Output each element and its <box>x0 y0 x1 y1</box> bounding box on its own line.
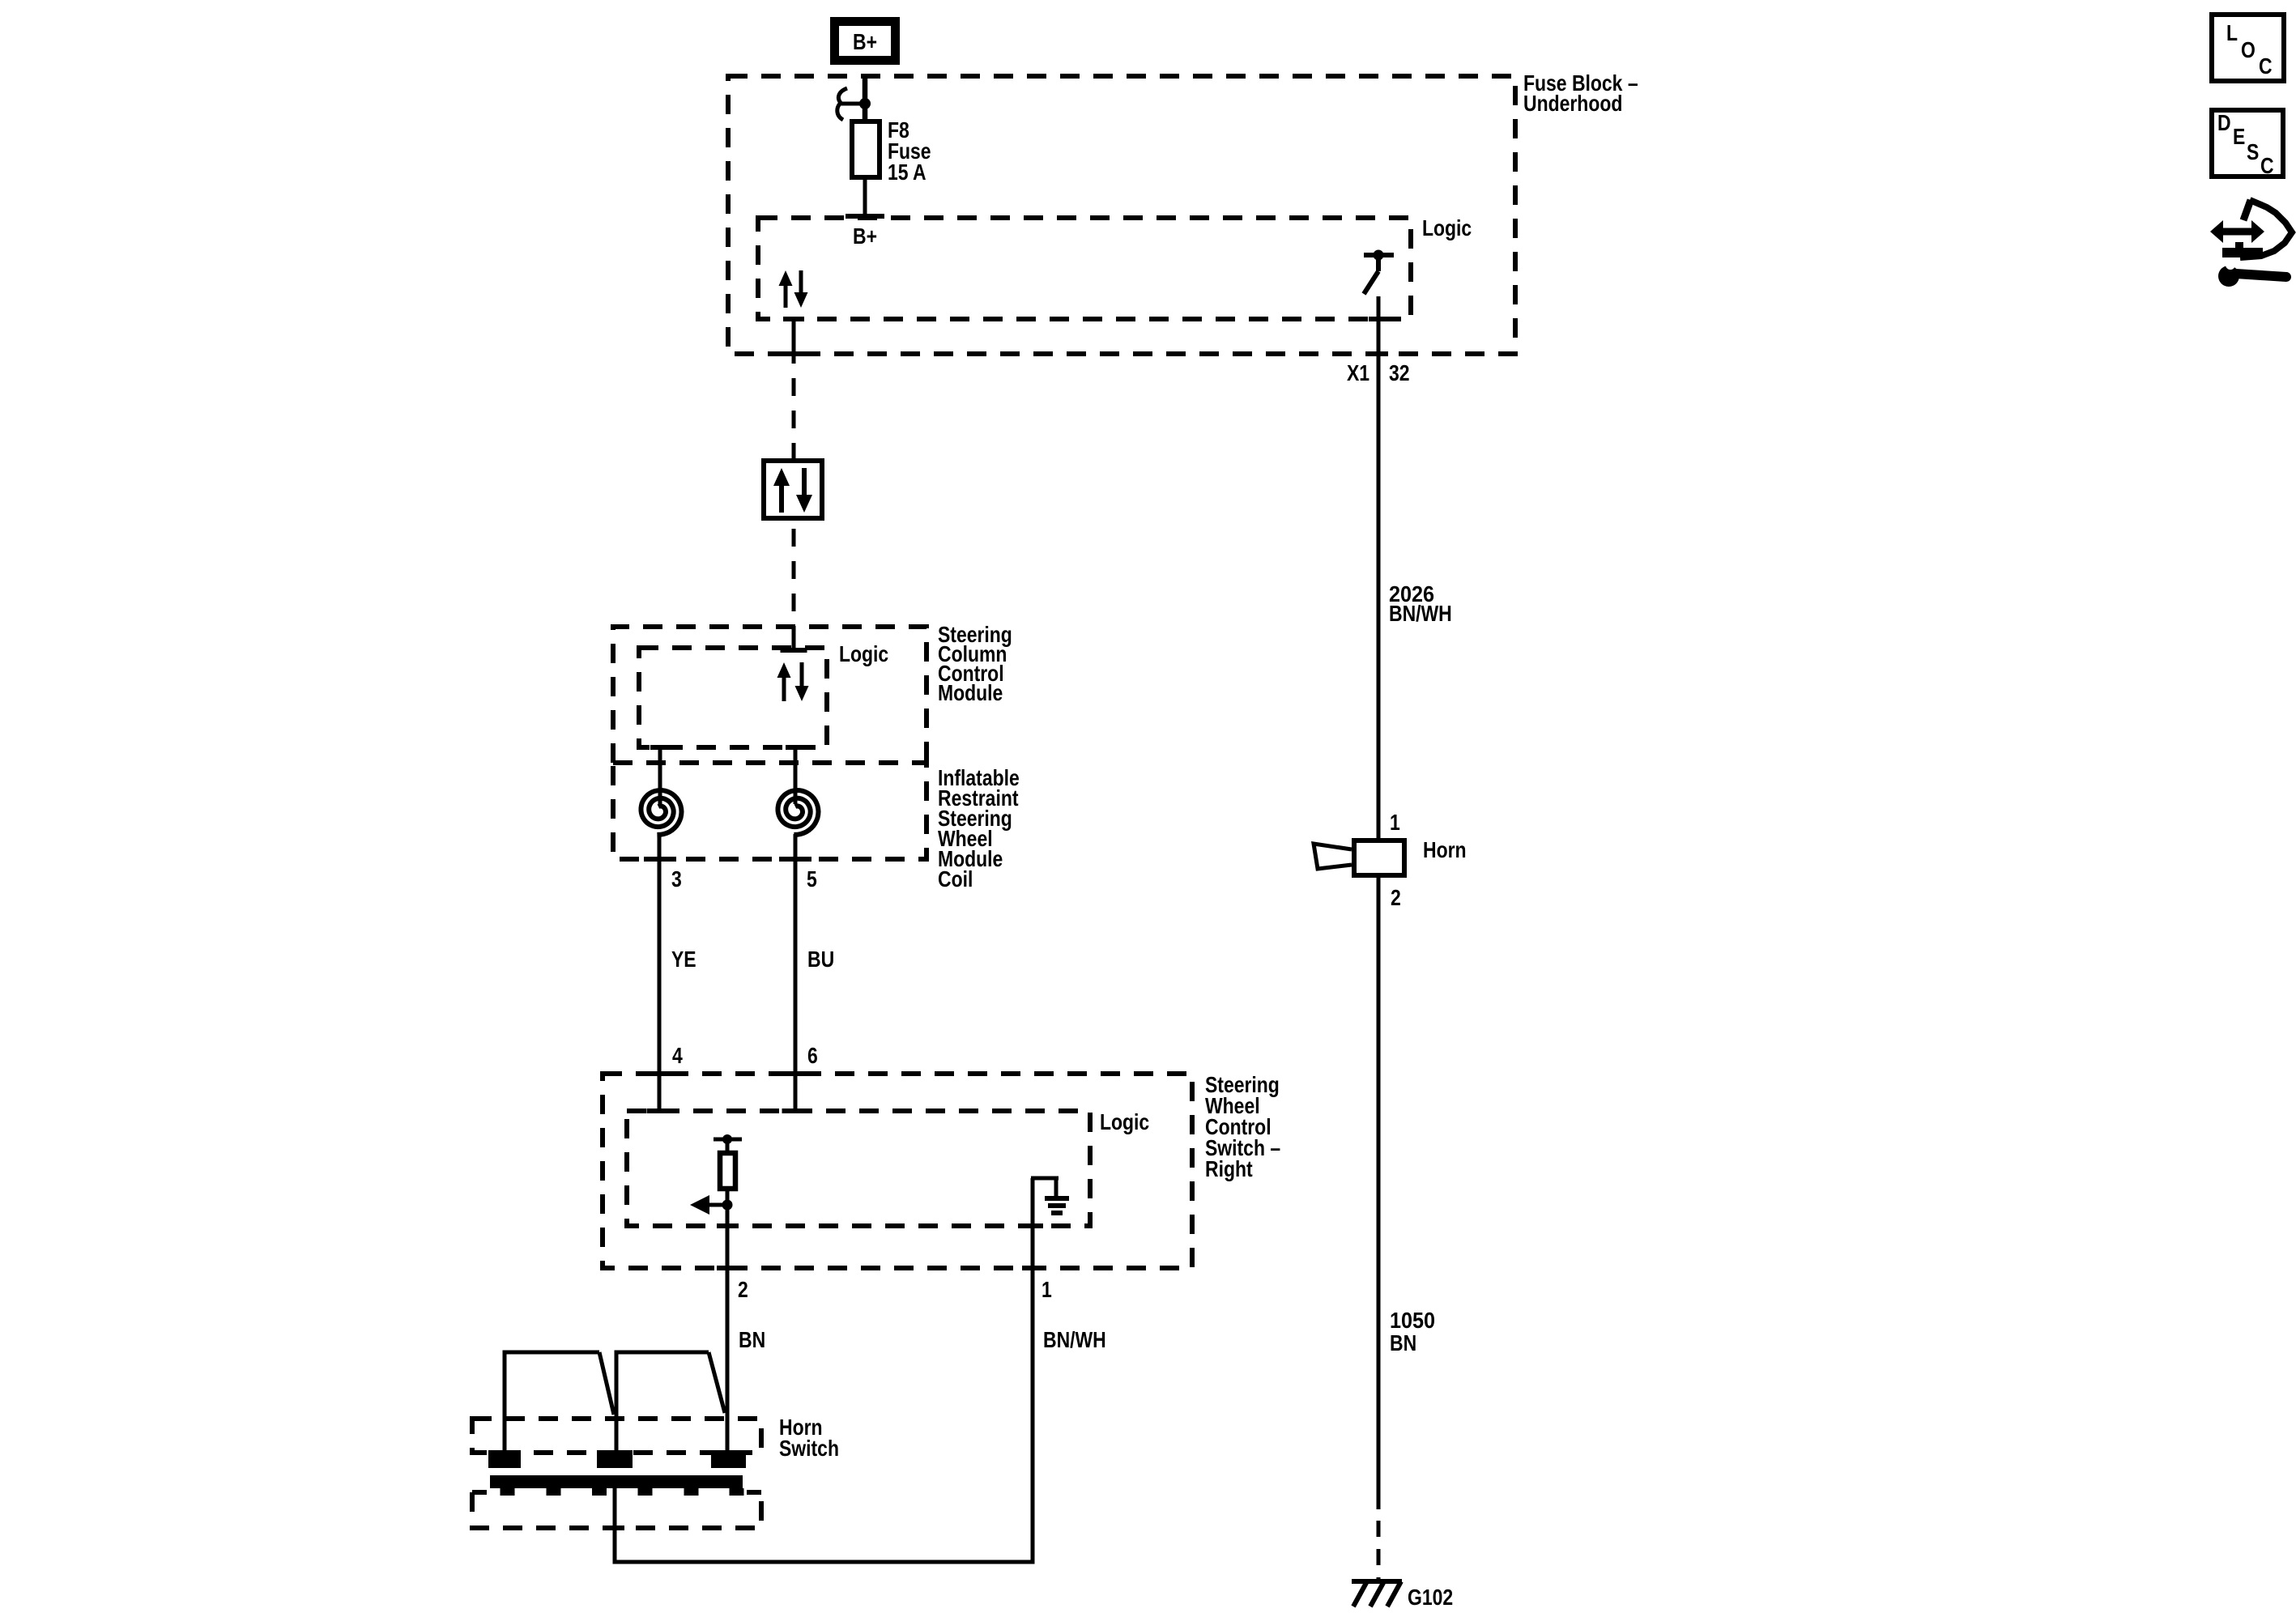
svg-text:B+: B+ <box>853 224 877 249</box>
svg-text:YE: YE <box>671 947 696 972</box>
svg-text:B+: B+ <box>853 30 877 55</box>
svg-text:15 A: 15 A <box>888 160 926 185</box>
svg-text:S: S <box>2247 140 2259 165</box>
svg-text:Right: Right <box>1205 1157 1253 1182</box>
svg-text:BN: BN <box>739 1328 765 1353</box>
svg-text:L: L <box>2226 21 2238 46</box>
svg-text:2: 2 <box>1391 886 1401 911</box>
svg-text:E: E <box>2233 125 2245 150</box>
svg-text:1050: 1050 <box>1390 1308 1435 1334</box>
svg-text:O: O <box>2241 38 2256 63</box>
svg-text:BN/WH: BN/WH <box>1043 1328 1106 1353</box>
svg-text:BN: BN <box>1390 1331 1416 1356</box>
svg-text:BN/WH: BN/WH <box>1389 602 1452 627</box>
svg-text:Logic: Logic <box>1422 216 1472 241</box>
svg-text:Module: Module <box>938 681 1003 706</box>
svg-text:X1: X1 <box>1347 361 1370 386</box>
svg-text:C: C <box>2260 154 2274 179</box>
svg-text:Logic: Logic <box>839 642 888 667</box>
svg-text:6: 6 <box>807 1044 818 1069</box>
svg-text:3: 3 <box>671 867 682 892</box>
svg-text:5: 5 <box>807 867 817 892</box>
svg-text:G102: G102 <box>1408 1585 1453 1611</box>
svg-text:BU: BU <box>807 947 834 972</box>
svg-text:Logic: Logic <box>1100 1110 1149 1135</box>
svg-text:D: D <box>2217 111 2231 136</box>
svg-text:4: 4 <box>672 1044 683 1069</box>
svg-text:32: 32 <box>1389 361 1410 386</box>
svg-text:C: C <box>2259 54 2273 79</box>
svg-text:Underhood: Underhood <box>1523 91 1622 117</box>
svg-text:2: 2 <box>738 1278 748 1303</box>
svg-text:1: 1 <box>1042 1278 1052 1303</box>
svg-text:Coil: Coil <box>938 867 973 892</box>
svg-text:1: 1 <box>1390 811 1400 836</box>
svg-text:Horn: Horn <box>1423 838 1467 863</box>
svg-text:Switch: Switch <box>779 1436 839 1462</box>
